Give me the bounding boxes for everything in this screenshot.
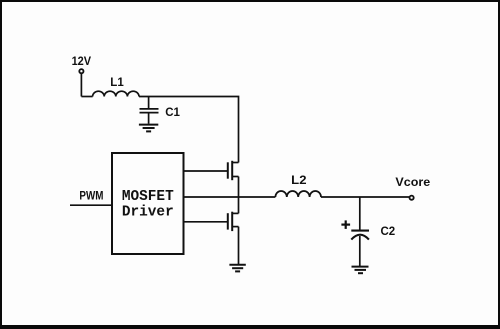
wire output rail	[321, 196, 410, 198]
wire C1 to ground	[148, 113, 150, 123]
svg-text:12V: 12V	[72, 56, 92, 68]
svg-text:PWM: PWM	[79, 191, 103, 203]
inductor L2	[275, 191, 321, 197]
wire gate lower MOSFET	[184, 221, 228, 223]
svg-text:C2: C2	[381, 226, 396, 238]
capacitor C1	[140, 109, 159, 113]
transistor Q1 upper MOSFET	[228, 161, 239, 197]
wire top rail left segment	[81, 96, 92, 98]
wire mid rail (switch node)	[184, 196, 276, 198]
IC U1 MOSFET Driver block	[112, 153, 184, 254]
svg-text:L2: L2	[291, 175, 306, 187]
wire 12V terminal to top rail	[80, 74, 82, 97]
svg-text:C1: C1	[165, 107, 180, 119]
wire gate upper MOSFET	[184, 170, 228, 172]
terminal Vcore	[410, 196, 414, 200]
terminal 12V	[79, 69, 83, 73]
ground (C2)	[352, 267, 369, 274]
svg-text:Vcore: Vcore	[395, 177, 430, 189]
ground (Q2 source)	[229, 265, 245, 272]
wire output node down to C2	[359, 197, 361, 230]
transistor Q2 lower MOSFET	[228, 197, 239, 265]
node C1 junction / wire down to C1	[148, 97, 150, 109]
wire PWM input	[70, 204, 112, 206]
capacitor C2 (polarized)	[351, 231, 369, 240]
svg-text:L1: L1	[110, 77, 124, 89]
wire top rail right segment + drain drop to Q1	[139, 97, 239, 163]
svg-text:Driver: Driver	[122, 204, 174, 220]
wire C2 to ground	[359, 236, 361, 266]
svg-text:MOSFET: MOSFET	[122, 189, 174, 205]
ground (C1)	[139, 125, 158, 132]
label + polarity	[341, 220, 350, 229]
inductor L1	[93, 91, 139, 96]
